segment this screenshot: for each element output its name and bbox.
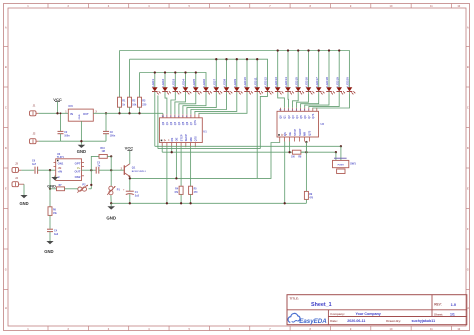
svg-text:Q7S: Q7S xyxy=(308,130,312,135)
svg-text:A: A xyxy=(467,25,469,29)
svg-text:GND: GND xyxy=(44,249,53,254)
svg-text:REV:: REV: xyxy=(434,303,441,307)
svg-text:C: C xyxy=(467,105,469,109)
svg-text:OUT: OUT xyxy=(83,112,89,116)
svg-text:OE: OE xyxy=(175,137,179,141)
svg-text:STCP: STCP xyxy=(293,129,297,136)
wire LED anode stubs rail2 xyxy=(215,59,217,87)
LED5 xyxy=(193,87,199,91)
svg-text:OPT: OPT xyxy=(75,162,81,166)
wire U1 pin to bus178 xyxy=(175,147,177,178)
wire LED12 cathode to control bus xyxy=(260,94,267,149)
svg-text:ON2: ON2 xyxy=(75,175,81,179)
svg-text:SHCP: SHCP xyxy=(184,134,188,141)
svg-text:GND: GND xyxy=(77,149,86,154)
LED7 xyxy=(214,87,220,91)
voltage regulator IC6 xyxy=(68,109,93,121)
wire LED10 cathode to U1 pin xyxy=(199,94,247,114)
svg-text:BC337-25PL1: BC337-25PL1 xyxy=(132,171,147,173)
svg-text:MR: MR xyxy=(303,132,307,136)
wire anode rail 2 (R2 to LED7-12) xyxy=(130,59,268,87)
wire LED15 cathode to U2 pin xyxy=(293,94,299,108)
wire U1 pin to bus152 xyxy=(161,147,163,152)
svg-text:U2: U2 xyxy=(321,122,325,126)
wire C6 to U3 +IN xyxy=(38,169,56,171)
svg-text:LED1: LED1 xyxy=(151,79,155,87)
LED13 xyxy=(275,87,281,91)
LED16 xyxy=(306,87,312,91)
resistor R10 feedback xyxy=(91,156,99,170)
resistor R5 xyxy=(190,147,192,186)
wire LED6 cathode to U1 pin xyxy=(183,94,206,114)
svg-text:IN: IN xyxy=(70,112,73,116)
svg-text:IC6: IC6 xyxy=(69,104,74,108)
wire U2 pin to R9 xyxy=(305,142,307,192)
ground GND4 xyxy=(20,195,27,198)
wire IC6 GND pin to ground xyxy=(80,121,82,145)
svg-text:LED13: LED13 xyxy=(274,77,278,87)
svg-text:E: E xyxy=(5,186,7,190)
resistor R9 xyxy=(304,191,308,199)
node R1 bottom on VCC wire xyxy=(118,112,120,114)
potentiometer P1 xyxy=(110,170,112,186)
wire LED18 cathode to U2 pin xyxy=(305,94,329,108)
svg-text:10k: 10k xyxy=(132,103,137,106)
svg-text:100n: 100n xyxy=(64,135,70,138)
wire LED anode stubs rail3 xyxy=(154,73,156,88)
svg-text:Q7S: Q7S xyxy=(194,136,198,141)
svg-text:U1: U1 xyxy=(203,129,207,133)
svg-text:220: 220 xyxy=(142,103,147,106)
wire LED4 cathode to U1 pin xyxy=(175,94,186,114)
svg-text:TITLE:: TITLE: xyxy=(290,297,300,301)
wire LED11 cathode down left side of U2 xyxy=(256,94,258,179)
LED17 xyxy=(316,87,322,91)
svg-text:DS: DS xyxy=(283,132,287,136)
U3 right pin stubs xyxy=(82,161,85,163)
svg-text:2020-06-11: 2020-06-11 xyxy=(347,319,365,323)
svg-text:GND: GND xyxy=(19,201,28,206)
title block outline xyxy=(287,295,467,325)
U2 bottom pin stubs xyxy=(279,137,281,142)
wire LED anode stubs rail1 xyxy=(277,51,279,88)
LED15 xyxy=(295,87,301,91)
svg-text:Q1: Q1 xyxy=(132,166,136,170)
capacitor C5 xyxy=(95,167,97,174)
wire LED20 cathode to U2 pin xyxy=(313,94,350,108)
wire bus y152 U1 to R8/SW1 xyxy=(162,151,292,153)
wire anode rail 3 (R3 to LED1-6) xyxy=(140,73,207,88)
svg-text:LED2: LED2 xyxy=(161,79,165,87)
node R2 bottom on VCC wire xyxy=(128,112,130,114)
wire LED9 cathode to U1 pin xyxy=(195,94,237,114)
capacitor C3 xyxy=(105,113,107,131)
svg-text:LED4: LED4 xyxy=(182,79,186,87)
LED12 xyxy=(265,87,271,91)
wire LED16 cathode to U2 pin xyxy=(297,94,309,108)
wire R8 to U2 pin riser xyxy=(301,142,307,153)
ground GND3 xyxy=(46,241,53,244)
svg-text:1M: 1M xyxy=(102,150,105,153)
wire U2 pin to ground bus xyxy=(284,142,286,204)
wire LED14 cathode to U2 pin xyxy=(287,94,290,108)
wire U2 pin to R8 node xyxy=(289,142,291,153)
ground GND5 xyxy=(110,203,112,206)
svg-text:Q7S: Q7S xyxy=(194,120,197,125)
wire LED17 cathode to U2 pin xyxy=(301,94,319,108)
svg-text:LED18: LED18 xyxy=(325,77,329,87)
svg-text:LED20: LED20 xyxy=(346,77,350,87)
U1 bottom pin stubs xyxy=(161,143,163,148)
resistor R4 xyxy=(180,147,182,186)
LED4 xyxy=(183,87,189,91)
op-amp U3 TL071 xyxy=(56,159,82,181)
resistor R1 xyxy=(119,51,121,98)
svg-text:GND: GND xyxy=(79,114,81,119)
svg-text:GND: GND xyxy=(106,215,116,220)
U3 left pin stubs xyxy=(54,161,56,163)
svg-text:LED5: LED5 xyxy=(192,79,196,87)
wire J3 to C6 xyxy=(21,169,34,171)
svg-text:Drawn By:: Drawn By: xyxy=(386,319,401,323)
wire anode rail 1 (R1 to LED13-20) xyxy=(120,51,350,88)
connector J2 xyxy=(30,139,37,144)
svg-text:H: H xyxy=(5,306,7,310)
svg-text:LED12: LED12 xyxy=(264,77,268,87)
connector J4 xyxy=(12,182,19,187)
svg-text:Q7S: Q7S xyxy=(312,113,315,118)
capacitor C4 xyxy=(47,228,53,230)
wire J1 to IC6 IN xyxy=(39,112,69,114)
svg-text:1/1: 1/1 xyxy=(450,312,455,316)
wire C5 to Q1 base xyxy=(99,169,125,171)
wire LED1 cathode down left side of U1 xyxy=(154,94,156,147)
svg-text:100n: 100n xyxy=(110,135,116,138)
U1 top pin stubs and numbers xyxy=(162,114,164,118)
svg-text:G: G xyxy=(5,267,7,271)
node feedback tap xyxy=(49,169,51,171)
wire bus y148 xyxy=(158,148,260,150)
wire VCC net IC6 OUT to U1 xyxy=(93,112,163,114)
svg-text:Company:: Company: xyxy=(330,312,345,316)
svg-text:E: E xyxy=(467,186,469,190)
svg-text:+IN: +IN xyxy=(58,169,62,173)
svg-text:ON1: ON1 xyxy=(58,162,64,166)
wire LED2 cathode to U1 pin xyxy=(165,94,167,114)
potentiometer P2 xyxy=(89,188,92,190)
svg-text:LED8: LED8 xyxy=(223,79,227,87)
svg-text:LED6: LED6 xyxy=(202,79,206,87)
svg-text:GND: GND xyxy=(47,183,56,188)
svg-text:B: B xyxy=(5,65,7,69)
U3 V- pin to ground GND2 xyxy=(54,175,57,177)
resistor R2 xyxy=(129,59,131,97)
svg-text:EasyEDA: EasyEDA xyxy=(299,318,327,325)
svg-text:R10: R10 xyxy=(100,147,105,150)
svg-text:LED17: LED17 xyxy=(315,77,319,87)
border zone ticks left/right xyxy=(4,46,9,48)
resistor R6 xyxy=(48,207,52,216)
IC U1 74HC595 xyxy=(160,118,203,143)
svg-text:OUT: OUT xyxy=(74,169,80,173)
svg-text:LED3: LED3 xyxy=(171,79,175,87)
svg-text:OE: OE xyxy=(288,132,292,136)
svg-text:TL071: TL071 xyxy=(57,156,65,159)
wire ground bus y203 xyxy=(110,202,306,204)
switch SW1 pushbutton xyxy=(340,145,342,147)
wire bus y146 to SW1 xyxy=(155,145,341,147)
svg-text:B: B xyxy=(467,65,469,69)
LED11 xyxy=(254,87,260,91)
svg-text:VCC: VCC xyxy=(53,97,62,102)
svg-text:LED7: LED7 xyxy=(212,79,216,87)
svg-text:D: D xyxy=(467,146,469,150)
svg-text:SW1: SW1 xyxy=(350,161,356,165)
wire LED3 cathode to U1 pin xyxy=(171,94,175,114)
svg-text:LED14: LED14 xyxy=(284,77,288,87)
LED2 xyxy=(162,87,168,91)
svg-text:D: D xyxy=(5,146,7,150)
svg-text:DS: DS xyxy=(170,138,174,142)
svg-text:U3: U3 xyxy=(57,152,61,156)
resistor R3 xyxy=(139,73,141,98)
svg-text:LED15: LED15 xyxy=(294,77,298,87)
LED1 xyxy=(152,87,158,91)
resistor R8 xyxy=(292,150,301,154)
svg-text:LED10: LED10 xyxy=(243,77,247,87)
wire U1 pin to ground bus xyxy=(166,147,168,203)
wire LED5 cathode to U1 pin xyxy=(179,94,196,114)
wire J4 to ground xyxy=(23,184,25,195)
svg-text:PUSH: PUSH xyxy=(338,164,344,166)
wire LED8 cathode to U1 pin xyxy=(191,94,227,114)
svg-text:3u3: 3u3 xyxy=(135,195,140,198)
EasyEDA logo xyxy=(288,313,300,322)
wire U1 pin to bus152 b xyxy=(171,147,173,152)
node VCC at J1 wire xyxy=(56,112,58,114)
U2 top pin stubs and numbers xyxy=(279,108,281,112)
svg-text:MR: MR xyxy=(189,137,193,141)
svg-text:SHCP: SHCP xyxy=(298,128,302,135)
svg-text:Your Company: Your Company xyxy=(356,312,381,316)
IC U2 74HC595 xyxy=(277,111,319,137)
wire feedback to P2 xyxy=(90,170,92,189)
LED9 xyxy=(234,87,240,91)
svg-text:LED19: LED19 xyxy=(335,77,339,87)
connector J1 xyxy=(30,111,37,116)
wire GND rail J2-C2-C3 xyxy=(39,140,106,142)
wire input node to R6 xyxy=(49,170,51,207)
svg-text:VCC: VCC xyxy=(125,145,134,150)
wire second control line from LED1 area xyxy=(157,96,159,149)
LED6 xyxy=(203,87,209,91)
svg-text:G: G xyxy=(467,267,469,271)
svg-text:LED11: LED11 xyxy=(253,77,257,87)
svg-text:1.0: 1.0 xyxy=(451,302,457,307)
svg-text:Sheet:: Sheet: xyxy=(434,312,443,316)
svg-text:A: A xyxy=(5,25,7,29)
LED14 xyxy=(285,87,291,91)
wire Q1 collector to VCC2 xyxy=(129,151,131,164)
svg-text:LED16: LED16 xyxy=(305,77,309,87)
wire LED7 cathode to U1 pin xyxy=(187,94,216,114)
svg-text:C: C xyxy=(5,105,7,109)
node R3 bottom on VCC wire xyxy=(138,112,140,114)
capacitor C2 xyxy=(60,113,62,131)
capacitor C6 xyxy=(34,167,36,174)
svg-text:Sheet_1: Sheet_1 xyxy=(311,302,332,308)
svg-text:3u3: 3u3 xyxy=(54,233,59,236)
wire bus y178 emitter to U2 xyxy=(130,142,280,179)
svg-text:Date:: Date: xyxy=(330,319,338,323)
svg-text:suchyjakub11: suchyjakub11 xyxy=(412,319,436,323)
LED20 xyxy=(347,87,353,91)
capacitor C1 xyxy=(126,190,134,192)
border zone ticks top/bottom xyxy=(47,4,49,9)
transistor Q1 BC337 xyxy=(123,165,125,175)
wire LED13 cathode to U2 pin xyxy=(278,94,285,108)
wire Q1 emitter down xyxy=(129,176,131,191)
svg-text:4u7: 4u7 xyxy=(32,163,37,166)
LED8 xyxy=(224,87,230,91)
connector J3 xyxy=(12,167,19,172)
wire LED19 cathode to U2 pin xyxy=(309,94,339,108)
svg-text:LED9: LED9 xyxy=(233,79,237,87)
ground GND1 xyxy=(78,145,86,148)
node IC6 gnd / rail xyxy=(80,140,82,142)
wire U3 OUT to C5 xyxy=(82,169,97,171)
svg-text:STCP: STCP xyxy=(179,134,183,141)
LED19 xyxy=(336,87,342,91)
LED18 xyxy=(326,87,332,91)
LED10 xyxy=(244,87,250,91)
LED3 xyxy=(173,87,179,91)
resistor R7 xyxy=(50,188,57,190)
